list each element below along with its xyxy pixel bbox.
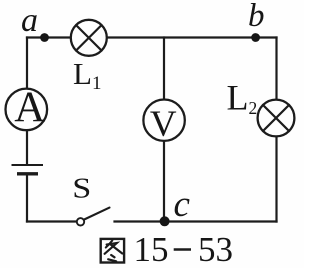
svg-text:15: 15	[134, 230, 169, 268]
svg-text:b: b	[248, 0, 265, 34]
svg-text:c: c	[174, 184, 191, 225]
node a	[40, 33, 49, 42]
lamp L2	[258, 100, 295, 137]
wire voltmeter upper	[163, 38, 165, 99]
svg-text:a: a	[21, 2, 38, 39]
switch S	[77, 208, 110, 226]
wire bottom-middle horizontal	[115, 220, 277, 222]
node c	[160, 216, 170, 226]
wire left vertical upper	[26, 38, 28, 89]
wire right vertical lower	[275, 138, 277, 222]
svg-text:53: 53	[198, 230, 233, 268]
svg-text:A: A	[14, 84, 45, 131]
node b	[251, 33, 260, 42]
lamp L1	[71, 20, 107, 56]
wire bottom-left horizontal	[27, 220, 77, 222]
caption dash	[174, 248, 191, 250]
caption character 图	[101, 239, 124, 263]
wire top-middle horizontal	[108, 36, 277, 38]
svg-text:S: S	[72, 172, 91, 204]
wire voltmeter lower	[163, 142, 165, 222]
svg-text:V: V	[150, 104, 177, 145]
voltmeter V1	[143, 100, 184, 145]
battery BT1	[12, 165, 44, 174]
wire top-left horizontal	[27, 36, 70, 38]
ammeter A1	[6, 84, 48, 131]
wire left vertical lower (battery to bottom)	[26, 176, 28, 222]
wire left vertical mid (ammeter to battery)	[26, 131, 28, 164]
wire right vertical upper	[275, 38, 277, 99]
